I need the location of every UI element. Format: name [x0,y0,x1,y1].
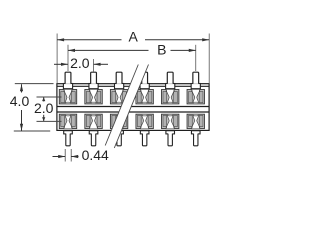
extension line pin 6 [195,45,197,71]
svg-text:2.0: 2.0 [70,55,90,71]
svg-text:B: B [157,42,166,58]
dimension B [68,42,196,71]
extension line body top [15,83,54,85]
dimension line upper with arrowhead [43,97,45,101]
dimension 0.44 pin width [53,147,110,163]
svg-text:0.44: 0.44 [82,147,109,163]
contact cavity 5 bottom row [162,114,179,129]
contact cavity 4 bottom row [136,114,153,129]
pin 1 bottom tail [64,131,73,146]
contact cavity 2 top row [85,89,102,104]
extension line pin left edge [64,149,66,162]
arrowhead A right [202,38,209,41]
contact cavity 3 top row [110,89,127,104]
svg-text:4.0: 4.0 [10,93,30,109]
contact cavity 2 bottom row [85,114,102,129]
extension line body bottom [14,130,50,132]
dimension line A right segment [145,39,209,41]
pin 3 bottom tail [115,131,124,146]
extension line pin 2 [93,59,95,72]
extension line right A [208,34,210,84]
leader left with arrowhead [54,63,68,65]
contact cavity 5 top row [162,89,179,104]
dimension line A left segment [57,39,121,41]
pin 6 bottom tail [191,131,200,146]
contact cavity 4 top row [136,89,153,104]
pin 6 top post [191,72,200,89]
dimension 2.0 row spacing [34,97,62,121]
pin 5 top post [166,72,175,89]
pin 4 top post [140,72,149,89]
pin 2 top post [89,72,98,89]
extension line bottom row [37,120,62,122]
leader right with arrowhead [94,63,108,65]
dimension 4.0 body height [10,84,54,131]
dimension line lower with arrowhead [43,115,45,121]
extension line pin 1 [67,45,69,71]
contact cavity 1 bottom row [59,114,76,129]
contact cavity 6 top row [187,89,204,104]
extension line top row [37,96,62,98]
extension line left A [56,34,58,84]
pin 5 bottom tail [166,131,175,146]
svg-text:2.0: 2.0 [34,100,54,116]
break line right [114,65,148,149]
contact cavity 1 top row [59,89,76,104]
contact cavity 6 bottom row [187,114,204,129]
pin 3 top post [115,72,124,89]
extension line pin right edge [70,149,72,162]
dimension A [57,29,209,84]
dimension 2.0 pitch top [54,55,108,72]
leader left with arrowhead [53,156,66,158]
arrowhead B right [189,49,196,52]
dimension line B left segment [68,49,149,51]
leader right with arrowhead [71,156,78,158]
pin 1 top post [63,72,72,89]
contact cavity 3 bottom row [110,114,127,129]
dimension line 4.0 upper with arrowhead [21,84,23,92]
dimension line B right segment [171,49,196,51]
arrowhead B left [68,49,75,52]
break line left [105,65,138,146]
connector body outline [57,84,209,131]
dimension line 4.0 lower with arrowhead [21,110,23,131]
break band blank [105,65,148,149]
pin 4 bottom tail [140,131,149,146]
pin 2 bottom tail [89,131,98,146]
arrowhead A left [57,38,64,41]
svg-text:A: A [129,29,139,45]
